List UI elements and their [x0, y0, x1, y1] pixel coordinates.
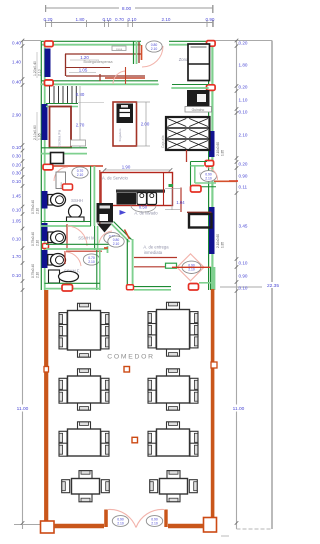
entrance tag right — [146, 516, 162, 527]
svg-text:2.70: 2.70 — [76, 123, 85, 128]
svg-text:2.10: 2.10 — [117, 521, 124, 525]
entrega door arc — [99, 231, 112, 243]
dining table 6-seat row2 col2 — [167, 369, 180, 377]
bottom small dash — [221, 535, 229, 537]
se corner wall — [210, 267, 212, 290]
sink basins — [137, 193, 147, 205]
left exterior wall — [40, 41, 42, 290]
bodega wall top — [65, 53, 141, 55]
svg-text:SSHH: SSHH — [71, 198, 83, 203]
divider sshh m/f — [46, 243, 111, 245]
entrega door tag — [108, 236, 124, 247]
gray side counter — [71, 140, 86, 146]
window W2 left — [42, 104, 48, 140]
sw corner post — [41, 521, 55, 533]
sink counter sshh f — [49, 270, 60, 283]
window W1 left — [45, 49, 51, 78]
svg-text:0.10: 0.10 — [12, 237, 21, 242]
lavabo cabinet — [56, 172, 66, 189]
red line from shelves — [186, 150, 188, 162]
left dim connector bottom — [14, 524, 40, 526]
svg-text:2.10x0.60: 2.10x0.60 — [216, 234, 220, 248]
black cabinet — [51, 153, 64, 164]
se corner post — [204, 518, 217, 533]
dim 1.04 — [171, 188, 173, 210]
island counter — [113, 102, 137, 146]
svg-text:Bodega/despensa: Bodega/despensa — [84, 60, 113, 64]
svg-text:2.90: 2.90 — [12, 113, 21, 118]
svg-text:inmediata: inmediata — [144, 250, 163, 255]
svg-text:0.10: 0.10 — [12, 145, 21, 150]
sshh m door leaf — [66, 224, 68, 248]
corridor door arc — [206, 168, 218, 181]
bodega door arc — [113, 71, 126, 84]
entrance arcs — [108, 509, 136, 527]
svg-text:11.00: 11.00 — [233, 406, 245, 412]
partition wall y86 right — [172, 84, 208, 86]
svg-text:1.05: 1.05 — [12, 219, 21, 224]
svg-text:1.40: 1.40 — [12, 60, 21, 65]
diagonal red segment — [125, 230, 130, 240]
svg-text:0.50: 0.50 — [139, 205, 148, 210]
service box — [101, 173, 173, 206]
service inner red line — [163, 173, 165, 206]
stairs bottom wall — [46, 103, 78, 105]
svg-text:2.00: 2.00 — [141, 122, 150, 127]
marker top-left corner — [45, 41, 54, 47]
orange mark east wall — [211, 362, 217, 368]
island dim 2.00 — [145, 102, 147, 146]
svg-text:0.20: 0.20 — [239, 85, 248, 90]
dining table 4-seat row4 col1 — [79, 471, 92, 479]
svg-text:2.10: 2.10 — [36, 272, 40, 278]
svg-text:2.10: 2.10 — [88, 260, 95, 264]
orange jamb — [104, 247, 108, 249]
red line over partition — [105, 77, 145, 79]
red line under divider — [66, 250, 102, 252]
green shelf tick — [169, 184, 174, 187]
dining table 6-seat row3 col1 — [78, 422, 91, 430]
entrega bottom green — [134, 286, 171, 288]
window W5 left — [42, 250, 48, 268]
svg-text:0.75x0.40: 0.75x0.40 — [31, 232, 35, 246]
bodega partition vertical green — [133, 41, 135, 64]
svg-text:0.90: 0.90 — [239, 274, 248, 279]
right dim connector y287 — [220, 286, 272, 288]
service hatch band — [116, 190, 165, 193]
svg-text:1.05: 1.05 — [79, 68, 88, 73]
svg-text:0.10: 0.10 — [12, 273, 21, 278]
dining table 6-seat row3 col2 — [167, 422, 180, 430]
svg-text:2.10: 2.10 — [239, 133, 248, 138]
svg-text:0.75x0.40: 0.75x0.40 — [31, 200, 35, 214]
top door jamb red — [141, 45, 143, 60]
marker corridor low — [191, 186, 202, 193]
sshh f door arc — [65, 252, 81, 266]
cocina counter — [50, 107, 72, 148]
shelves X-hatched — [166, 117, 210, 150]
divider sshh/sshhm — [41, 221, 91, 223]
chef v shape — [97, 224, 112, 233]
sshh m door tag — [104, 232, 120, 243]
left dim connector top — [23, 40, 42, 42]
svg-text:2.10: 2.10 — [151, 521, 158, 525]
sshh f door leaf — [64, 251, 66, 264]
sshh f bottom wall — [45, 282, 101, 284]
service black box — [117, 193, 137, 205]
svg-text:A. de lavado: A. de lavado — [134, 211, 158, 216]
entrance right jamb — [164, 510, 167, 528]
bath east wall mid — [94, 226, 96, 250]
svg-text:A. de entrega: A. de entrega — [143, 245, 169, 250]
diamond door tag — [182, 261, 201, 273]
black counter entrega — [187, 211, 212, 213]
guincho label box — [185, 107, 212, 113]
svg-text:0.10: 0.10 — [103, 17, 112, 22]
left dimension line — [22, 41, 24, 530]
svg-text:2.10x0.60: 2.10x0.60 — [216, 142, 220, 156]
svg-text:1.85: 1.85 — [221, 150, 225, 156]
marker top-right corner — [207, 41, 216, 47]
svg-text:2.10: 2.10 — [77, 173, 84, 177]
svg-text:0.11: 0.11 — [239, 185, 248, 190]
dining east wall orange — [211, 289, 215, 519]
svg-text:2.10: 2.10 — [113, 242, 120, 246]
dining table 8-seat row1 col1 — [78, 303, 91, 311]
svg-text:2.10: 2.10 — [151, 47, 158, 51]
svg-text:0.90: 0.90 — [239, 174, 248, 179]
swing arc under sinks — [131, 206, 156, 213]
bath east wall upper — [90, 166, 92, 226]
pass green bar — [166, 263, 177, 268]
dining west wall orange — [44, 290, 48, 524]
svg-text:1.10: 1.10 — [239, 98, 248, 103]
svg-text:0.30: 0.30 — [12, 154, 21, 159]
top wall right part — [169, 40, 208, 42]
svg-text:1.04: 1.04 — [176, 200, 185, 205]
top door tag — [146, 41, 162, 52]
lot boundary line right outer — [271, 41, 273, 530]
orange line to dim — [214, 180, 237, 182]
partition wall y81 full span — [41, 80, 158, 82]
svg-text:1.20x0.40: 1.20x0.40 — [33, 61, 37, 76]
bodega door jamb — [125, 67, 127, 84]
top door arc — [142, 46, 163, 67]
dining table 4-seat row4 col2 — [167, 471, 180, 479]
svg-text:0.20: 0.20 — [239, 41, 248, 46]
svg-text:0.10: 0.10 — [239, 286, 248, 291]
svg-text:1.45: 1.45 — [12, 194, 21, 199]
svg-text:0.10: 0.10 — [239, 261, 248, 266]
corridor U wall — [190, 162, 192, 188]
red line mid — [180, 188, 182, 213]
bodega shelf line — [66, 67, 110, 69]
counter line 2 — [134, 266, 168, 268]
marker left y80 redraw — [45, 80, 54, 86]
guincho black box — [187, 90, 210, 107]
right dim ticks — [235, 39, 239, 43]
svg-text:22.35: 22.35 — [267, 283, 279, 289]
diagonal wall — [114, 222, 132, 240]
svg-text:2.10x0.60: 2.10x0.60 — [33, 125, 37, 140]
marker sshh door — [63, 184, 73, 190]
svg-text:2.10: 2.10 — [36, 240, 40, 246]
bottom wall left — [54, 524, 104, 528]
bodega wall left — [65, 54, 67, 76]
toilet sshh — [48, 195, 54, 206]
svg-text:0.70: 0.70 — [115, 17, 124, 22]
marker left y142 — [43, 164, 53, 170]
top dimension line 8.00 — [46, 7, 214, 9]
blue mark — [120, 210, 127, 215]
right dimension line — [236, 41, 238, 530]
sshh m door arc — [67, 226, 87, 246]
svg-text:2.10: 2.10 — [36, 208, 40, 214]
svg-text:A. de Servicio: A. de Servicio — [102, 176, 129, 181]
orange mark west wall — [44, 367, 49, 373]
svg-text:Caja alta: Caja alta — [161, 135, 165, 148]
svg-text:Guincho: Guincho — [192, 108, 205, 112]
window W4 left — [42, 223, 48, 241]
red line through diamond — [172, 266, 211, 268]
marker bottom door — [62, 285, 73, 292]
toilet sshh f — [48, 255, 54, 266]
right dim red tick — [229, 180, 238, 182]
svg-text:fregadero: fregadero — [118, 128, 122, 141]
svg-text:COMEDOR: COMEDOR — [107, 354, 154, 361]
svg-text:1.85: 1.85 — [221, 242, 225, 248]
svg-text:1.90: 1.90 — [122, 164, 131, 169]
svg-text:1.80: 1.80 — [239, 63, 248, 68]
svg-text:0.20: 0.20 — [239, 162, 248, 167]
fridge unit — [188, 44, 210, 81]
svg-text:8.00: 8.00 — [122, 6, 132, 12]
svg-text:Cocina Fa: Cocina Fa — [57, 129, 62, 148]
service dim 1.90 — [105, 169, 171, 171]
pedestal sink 1 — [69, 205, 82, 218]
island appliance — [117, 104, 134, 124]
counter line 1 — [134, 257, 177, 259]
svg-text:0.10: 0.10 — [239, 110, 248, 115]
sshh door arc — [54, 167, 68, 181]
bodega partition red face — [138, 42, 140, 63]
bath east wall lower — [96, 250, 98, 290]
svg-text:2.10: 2.10 — [162, 17, 171, 22]
entrega west wall — [126, 239, 128, 285]
svg-text:3.45: 3.45 — [239, 224, 248, 229]
svg-text:1.80: 1.80 — [76, 17, 85, 22]
small table top partition — [112, 46, 126, 51]
svg-text:0.40: 0.40 — [12, 41, 21, 46]
svg-text:0.90: 0.90 — [206, 17, 215, 22]
svg-text:2.10: 2.10 — [188, 268, 195, 272]
sshh f door tag — [83, 254, 99, 265]
entrance left jamb — [104, 510, 108, 528]
svg-text:1.70: 1.70 — [12, 254, 21, 259]
svg-text:0.20: 0.20 — [44, 17, 53, 22]
svg-text:0.75x0.40: 0.75x0.40 — [31, 264, 35, 278]
right exterior wall — [208, 46, 210, 290]
red stub bodega SE — [99, 74, 101, 81]
marker right low — [189, 284, 199, 291]
dining table 6-seat row2 col1 — [78, 369, 91, 377]
svg-text:0.20: 0.20 — [12, 163, 21, 168]
top dimension line segments — [46, 22, 214, 24]
svg-text:0.30: 0.30 — [12, 171, 21, 176]
double door diamond — [177, 254, 204, 281]
lot boundary top connector — [214, 40, 272, 42]
service west red line — [99, 170, 101, 225]
left dim ticks — [21, 39, 25, 43]
stairs hatch — [49, 86, 51, 103]
sink oval sshh f — [59, 271, 79, 281]
svg-text:1.20: 1.20 — [80, 55, 89, 60]
stove black — [97, 203, 114, 223]
marker right y85 — [207, 85, 216, 91]
toilet sshh m — [48, 232, 54, 243]
window right R2 — [209, 207, 215, 254]
entrance tag left — [112, 516, 128, 527]
svg-text:SSHH M.: SSHH M. — [78, 236, 95, 241]
dining table 8-seat row1 col2 — [167, 302, 180, 310]
svg-text:0.10: 0.10 — [12, 208, 21, 213]
bodega wall bottom — [66, 75, 145, 77]
svg-text:2.10: 2.10 — [205, 176, 212, 180]
entrega wall marker — [127, 285, 134, 290]
bottom wall right — [168, 524, 204, 528]
orange post mid b — [132, 437, 138, 443]
svg-text:mesa: mesa — [116, 48, 123, 51]
svg-text:0.40: 0.40 — [12, 80, 21, 85]
top wall left part — [41, 40, 141, 42]
orange post mid a — [124, 367, 130, 373]
marker left small y243 — [43, 244, 49, 249]
marker right y160 — [205, 161, 214, 167]
svg-text:0.10: 0.10 — [12, 179, 21, 184]
svg-text:0.10: 0.10 — [128, 17, 137, 22]
window right R1 — [209, 131, 215, 157]
svg-text:11.00: 11.00 — [17, 406, 29, 412]
sshh door tag — [72, 167, 88, 178]
marker left y80 — [45, 80, 54, 86]
kitchen-bath divider wall — [41, 147, 87, 149]
bottom right dashes — [237, 528, 273, 530]
window W3 left — [42, 191, 48, 209]
sshh north red line — [53, 165, 103, 167]
